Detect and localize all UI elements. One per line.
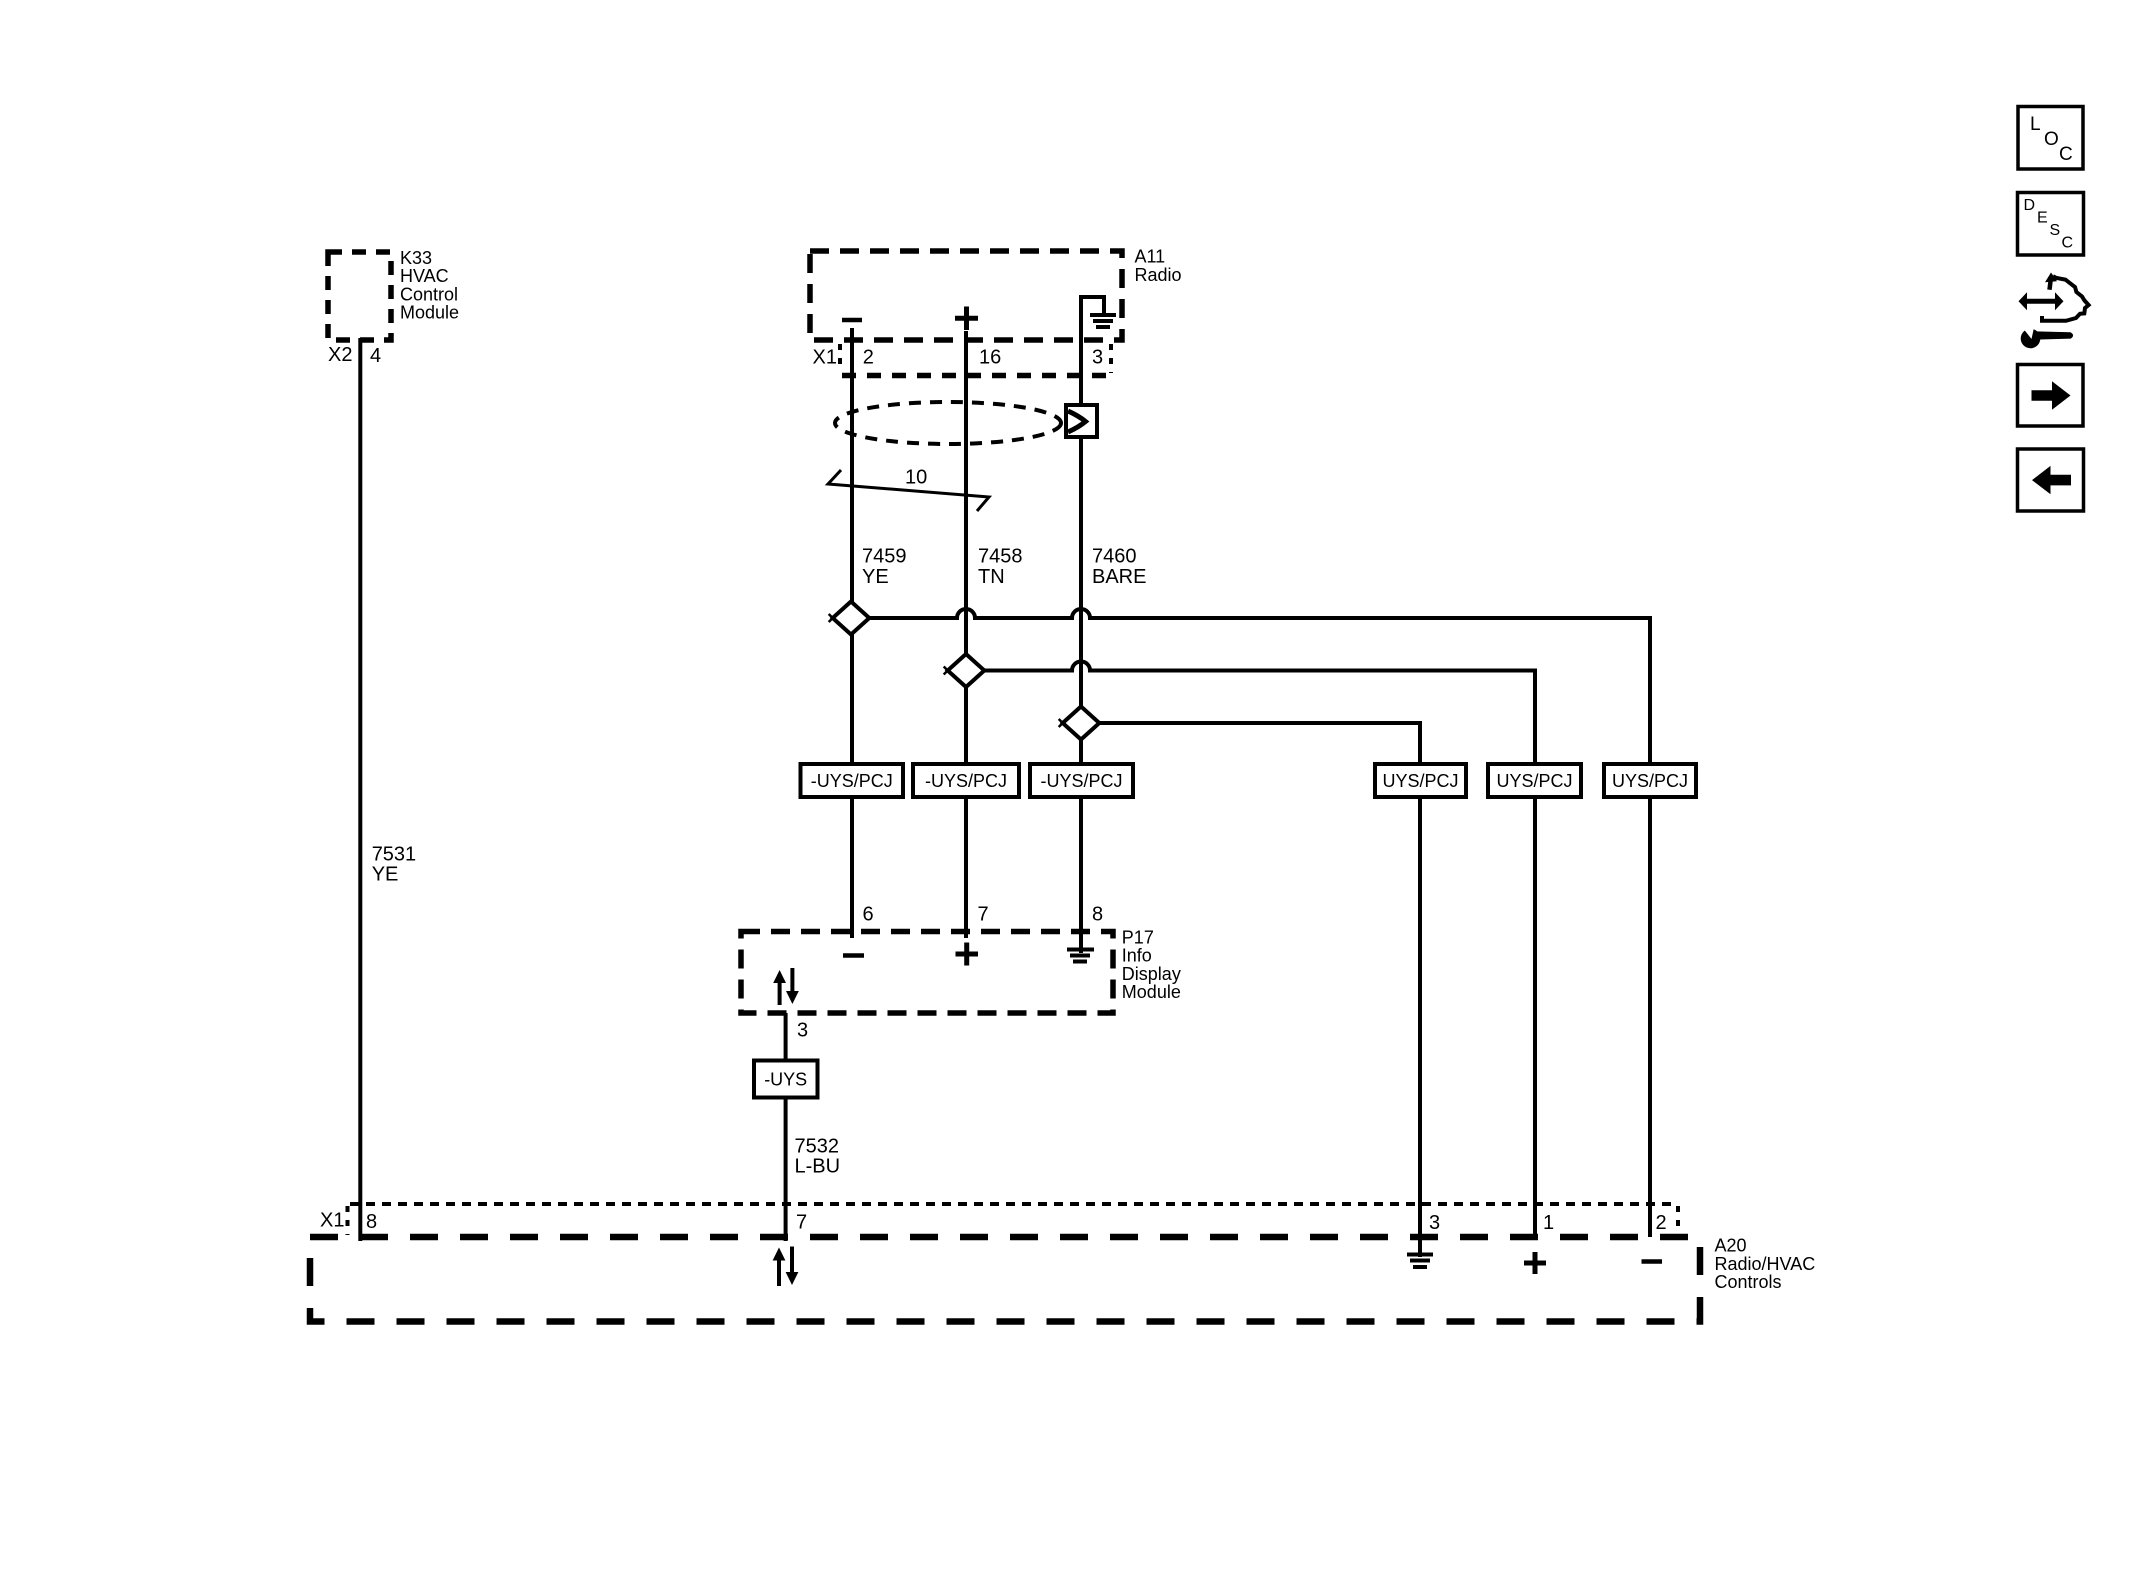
svg-text:P17: P17 xyxy=(1122,927,1154,947)
wire label 7531 YE xyxy=(372,843,417,885)
svg-text:7: 7 xyxy=(978,903,989,925)
splice pack code box UYS/PCJ (to A20 pin 3) xyxy=(1375,764,1466,797)
svg-text:X1: X1 xyxy=(320,1209,344,1231)
wire 7460 BARE from A11 X1-3 to P17 pin 8 xyxy=(1079,340,1083,932)
svg-text:X1: X1 xyxy=(813,347,837,369)
wire label 7459 YE xyxy=(862,546,907,588)
svg-text:Module: Module xyxy=(1122,982,1181,1002)
wire label 7532 L-BU xyxy=(795,1135,841,1177)
svg-text:16: 16 xyxy=(979,346,1001,368)
A11 plus symbol xyxy=(955,307,978,331)
svg-text:YE: YE xyxy=(862,566,889,588)
svg-text:C: C xyxy=(2059,144,2073,165)
wire from UYS/PCJ to A20 pin 3 xyxy=(1418,797,1422,1237)
svg-text:-UYS: -UYS xyxy=(764,1069,807,1089)
splice S3 on wire 7460 xyxy=(1059,707,1100,740)
A11 connector X1 strip xyxy=(840,344,1111,376)
svg-text:Module: Module xyxy=(400,303,459,323)
svg-text:S: S xyxy=(2050,222,2061,239)
svg-text:HVAC: HVAC xyxy=(400,266,449,286)
wire from UYS/PCJ to A20 pin 1 xyxy=(1533,797,1537,1237)
svg-text:1: 1 xyxy=(1543,1212,1554,1234)
splice pack code box -UYS/PCJ (wire 7459) xyxy=(801,764,904,797)
svg-text:TN: TN xyxy=(978,566,1005,588)
wire label 7458 TN xyxy=(978,546,1023,588)
K33 label xyxy=(400,248,459,323)
svg-text:2: 2 xyxy=(863,346,874,368)
wire from UYS/PCJ to A20 pin 2 xyxy=(1648,797,1652,1237)
svg-text:3: 3 xyxy=(797,1020,808,1042)
wire 7459 YE from A11 X1-2 to P17 pin 6 xyxy=(850,328,854,938)
cable annotation line 10 xyxy=(828,470,989,511)
A11 label xyxy=(1135,247,1182,285)
svg-text:UYS/PCJ: UYS/PCJ xyxy=(1612,771,1688,791)
connector service icon (double arrow, outline, wrench) xyxy=(2019,273,2089,349)
svg-text:Radio/HVAC: Radio/HVAC xyxy=(1715,1254,1816,1274)
A20 minus symbol xyxy=(1642,1259,1663,1264)
svg-text:UYS/PCJ: UYS/PCJ xyxy=(1496,771,1572,791)
A20 Radio/HVAC Controls box xyxy=(310,1237,1700,1322)
splice pack code box -UYS/PCJ (wire 7460) xyxy=(1030,764,1133,797)
svg-text:UYS/PCJ: UYS/PCJ xyxy=(1382,771,1458,791)
svg-text:O: O xyxy=(2044,129,2059,150)
P17 Info Display Module box xyxy=(741,932,1113,1014)
forward arrow icon box xyxy=(2018,365,2084,427)
svg-text:-UYS/PCJ: -UYS/PCJ xyxy=(811,771,893,791)
LOC icon box xyxy=(2018,107,2083,170)
svg-text:2: 2 xyxy=(1656,1212,1667,1234)
splice S1 on wire 7459 xyxy=(829,602,870,635)
wire 7532 L-BU from P17 pin 3 to A20 X1-7 xyxy=(784,1013,788,1241)
svg-text:Display: Display xyxy=(1122,964,1181,984)
svg-text:3: 3 xyxy=(1429,1212,1440,1234)
svg-text:7531: 7531 xyxy=(372,843,417,865)
shield ellipse (twisted/shielded cable) xyxy=(835,402,1061,444)
A20 bidirectional arrows xyxy=(773,1247,799,1287)
P17 bidirectional arrows xyxy=(773,968,799,1005)
svg-text:X2: X2 xyxy=(328,344,352,366)
svg-text:Control: Control xyxy=(400,284,458,304)
svg-text:8: 8 xyxy=(366,1211,377,1233)
wire 7531 YE from K33 X2-4 to A20 X1-8 xyxy=(358,338,362,1241)
A11 minus symbol xyxy=(842,318,862,323)
svg-text:BARE: BARE xyxy=(1092,566,1146,588)
svg-text:K33: K33 xyxy=(400,248,432,268)
svg-text:8: 8 xyxy=(1092,903,1103,925)
svg-text:YE: YE xyxy=(372,863,399,885)
wire label 7460 BARE xyxy=(1092,546,1146,588)
A11 Radio box xyxy=(810,251,1122,340)
svg-text:-UYS/PCJ: -UYS/PCJ xyxy=(925,771,1007,791)
svg-text:Controls: Controls xyxy=(1715,1272,1782,1292)
svg-text:10: 10 xyxy=(905,466,927,488)
svg-text:Info: Info xyxy=(1122,946,1152,966)
P17 plus symbol xyxy=(956,943,979,966)
svg-text:-UYS/PCJ: -UYS/PCJ xyxy=(1040,771,1122,791)
shield drain box with arrow xyxy=(1066,405,1097,437)
A20 connector strip (fine dotted) xyxy=(348,1204,1679,1235)
svg-text:A20: A20 xyxy=(1715,1236,1747,1256)
svg-text:7460: 7460 xyxy=(1092,546,1137,568)
wire row 2 from splice on 7458 to A20 X1-1 xyxy=(984,662,1535,765)
svg-text:A11: A11 xyxy=(1135,247,1166,267)
svg-text:D: D xyxy=(2024,197,2036,214)
wire row 1 from splice on 7459 to A20 X1-2 xyxy=(869,609,1650,764)
splice code box -UYS (wire 7532) xyxy=(754,1061,818,1098)
svg-text:7458: 7458 xyxy=(978,546,1023,568)
splice pack code box -UYS/PCJ (wire 7458) xyxy=(913,764,1019,797)
A20 plus symbol xyxy=(1524,1252,1546,1274)
A20 label xyxy=(1715,1236,1816,1292)
A11 internal ground symbol xyxy=(1081,297,1116,340)
svg-text:4: 4 xyxy=(370,345,381,367)
wire 7458 TN from A11 X1-16 to P17 pin 7 xyxy=(964,331,968,938)
P17 internal ground symbol xyxy=(1067,932,1094,962)
splice S2 on wire 7458 xyxy=(944,654,985,687)
P17 minus symbol xyxy=(843,953,864,958)
svg-text:7532: 7532 xyxy=(795,1135,840,1157)
svg-text:Radio: Radio xyxy=(1135,265,1182,285)
splice pack code box UYS/PCJ (to A20 pin 2) xyxy=(1604,764,1696,797)
svg-text:7459: 7459 xyxy=(862,546,907,568)
P17 label xyxy=(1122,927,1181,1002)
svg-text:L: L xyxy=(2030,114,2041,135)
svg-text:6: 6 xyxy=(863,903,874,925)
back arrow icon box xyxy=(2018,449,2084,511)
svg-text:C: C xyxy=(2062,235,2074,252)
K33 HVAC Control Module box xyxy=(328,252,391,340)
svg-text:E: E xyxy=(2037,210,2048,227)
DESC icon box xyxy=(2018,193,2084,256)
svg-text:7: 7 xyxy=(796,1211,807,1233)
splice pack code box UYS/PCJ (to A20 pin 1) xyxy=(1488,764,1581,797)
svg-text:L-BU: L-BU xyxy=(795,1155,841,1177)
svg-text:3: 3 xyxy=(1092,346,1103,368)
wire row 3 from splice on 7460 to A20 X1-3 xyxy=(1099,723,1420,764)
A20 internal ground symbol xyxy=(1407,1237,1433,1267)
